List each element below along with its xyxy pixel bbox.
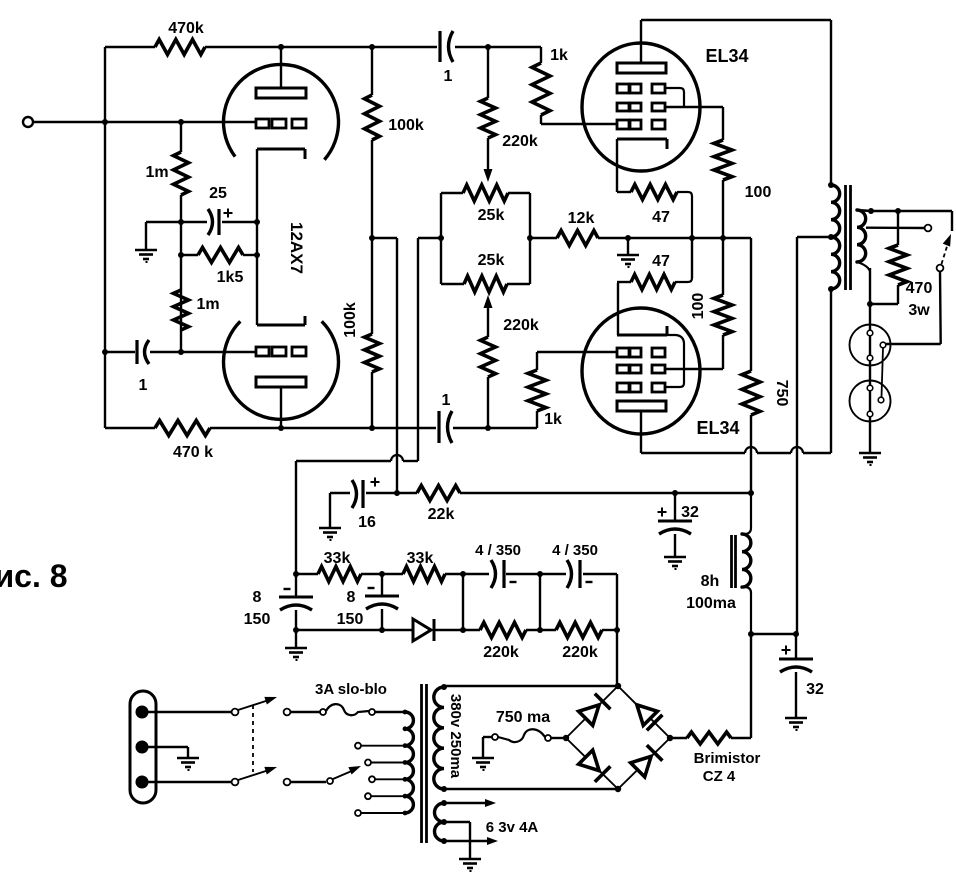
svg-text:150: 150 [337,611,364,628]
svg-text:Brimistor: Brimistor [694,750,761,767]
svg-text:1: 1 [444,68,453,85]
svg-text:47: 47 [652,209,670,226]
svg-text:8h: 8h [701,573,720,590]
svg-text:100: 100 [690,293,707,320]
svg-text:CZ 4: CZ 4 [703,768,736,785]
svg-text:33k: 33k [324,550,351,567]
svg-text:100k: 100k [342,302,359,338]
svg-text:22k: 22k [428,506,455,523]
svg-text:470k: 470k [168,20,204,37]
svg-text:12AX7: 12AX7 [287,222,306,274]
svg-text:16: 16 [358,514,376,531]
svg-text:150: 150 [244,611,271,628]
svg-text:1m: 1m [145,164,168,181]
svg-text:3w: 3w [908,302,930,319]
svg-text:470 k: 470 k [173,444,213,461]
svg-text:220k: 220k [503,317,539,334]
svg-text:8: 8 [347,589,356,606]
svg-text:100ma: 100ma [686,595,736,612]
svg-text:EL34: EL34 [705,46,748,66]
svg-text:4 / 350: 4 / 350 [475,542,521,559]
svg-text:32: 32 [681,504,699,521]
svg-text:380v 250ma: 380v 250ma [447,694,464,779]
svg-text:1k: 1k [550,47,568,64]
svg-text:470: 470 [906,280,933,297]
svg-text:220k: 220k [502,133,538,150]
svg-text:6 3v 4A: 6 3v 4A [486,819,539,836]
svg-text:3A slo-blo: 3A slo-blo [315,681,387,698]
svg-text:25k: 25k [478,207,505,224]
svg-text:1: 1 [442,392,451,409]
svg-text:4 / 350: 4 / 350 [552,542,598,559]
svg-text:32: 32 [806,681,824,698]
svg-text:33k: 33k [407,550,434,567]
svg-text:750: 750 [773,380,790,407]
svg-text:8: 8 [253,589,262,606]
svg-text:12k: 12k [568,210,595,227]
svg-text:1: 1 [139,377,148,394]
svg-text:750 ma: 750 ma [496,709,550,726]
svg-text:1k: 1k [544,411,562,428]
svg-text:1m: 1m [196,296,219,313]
svg-text:1k5: 1k5 [217,269,244,286]
svg-text:100: 100 [745,184,772,201]
svg-text:EL34: EL34 [696,418,739,438]
svg-text:100k: 100k [388,117,424,134]
svg-text:47: 47 [652,253,670,270]
svg-text:25k: 25k [478,252,505,269]
svg-text:ис. 8: ис. 8 [0,558,68,594]
svg-text:220k: 220k [562,644,598,661]
svg-text:25: 25 [209,185,227,202]
svg-text:220k: 220k [483,644,519,661]
